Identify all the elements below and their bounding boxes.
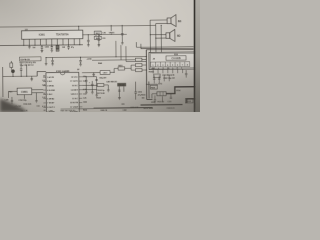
node dot feed tap x=80.5 <box>80 57 81 58</box>
ground at C602 <box>41 50 44 52</box>
wire: horizontal feed y=60 <box>92 59 135 61</box>
wire: U601 output net to right cluster <box>82 33 126 35</box>
wire: C817 right lead <box>110 71 114 73</box>
capacitor C814 dashes on x=96.3 <box>95 79 97 80</box>
wire: CN601 to U201 pin b <box>32 92 44 94</box>
wire: vertical speaker feed 1 <box>149 20 151 52</box>
capacitor C518 stub <box>154 95 156 103</box>
capacitor C817 box <box>100 71 110 75</box>
capacitor C603 below rail <box>51 45 53 50</box>
capacitor C602 below rail <box>41 45 43 50</box>
capacitor C611 on node at x=88.5 <box>87 35 90 45</box>
wire: riser x=116 to feed y=57 <box>115 41 117 57</box>
relay TC-08B label box <box>117 83 126 86</box>
wire: left edge vertical <box>2 67 4 97</box>
capacitor C511 stub <box>170 94 172 99</box>
node dot junction R601 right <box>98 34 99 35</box>
wire: CN601 bottom stub <box>23 95 25 99</box>
capacitor C613 drop from bus <box>121 25 124 42</box>
input stage label block frame <box>20 57 42 61</box>
U201 pin voltage labels (left, outside) <box>42 76 47 112</box>
node dot pin stub x=86 <box>86 76 87 77</box>
wire: lower link y=108.3 <box>61 108 94 110</box>
wire: bus tap to U601 top <box>78 26 80 30</box>
node dot link x=114 <box>114 72 115 73</box>
resistor R601 in series on output net <box>94 31 101 35</box>
node dot at x=26.5 on net <box>26 76 27 77</box>
resistor R509 box at right edge <box>196 93 200 98</box>
wire: stubs from CX pins down <box>154 75 169 83</box>
wire: bottom thick bus <box>141 104 183 106</box>
wire: links between R601 and R602 <box>96 35 99 37</box>
ground rail under U601 <box>0 44 83 47</box>
electrolytic C604 dark body <box>56 46 59 49</box>
wire: CN601 to U201 pin a <box>32 89 44 91</box>
node dot rail y=84.7 <box>146 84 147 85</box>
U201 top notch <box>60 73 64 75</box>
node dot riser x=116 <box>116 56 117 57</box>
wire: bottom-left horizontal net y=75.5 <box>3 75 37 77</box>
capacitor dashes on stub x=159 <box>158 78 160 79</box>
ground at C613 <box>121 43 124 45</box>
wire: vertical link x=114 <box>113 68 115 72</box>
wire: SP602 minus lead <box>156 37 166 39</box>
R655 lead wires <box>131 69 146 71</box>
area beyond sheet edge <box>195 0 200 112</box>
ground at C603 <box>51 50 54 52</box>
wire: vertical x=96.3 <box>82 77 97 96</box>
wire: bottom bus left segment <box>94 107 153 110</box>
capacitor C612 on node at x=99 <box>98 35 101 45</box>
ground at C611 <box>87 45 90 47</box>
ground at x=31.5 under net <box>30 79 33 81</box>
capacitor C220 left column <box>11 97 13 104</box>
wire: vertical under CN wires <box>35 93 37 101</box>
capacitor C812 right of U201 <box>85 77 88 92</box>
wire: horizontal feed y=57 <box>46 57 146 58</box>
R653 lead wires on y=60 net <box>142 59 146 61</box>
capacitor C501 drop at x=52.5 <box>51 57 53 63</box>
resistor R654 middle box <box>135 64 142 67</box>
ground at x=46 <box>45 64 48 66</box>
CX-100B name plate <box>166 56 186 61</box>
wire: step up to U201 pin row <box>37 71 46 76</box>
node dot bus tap feed 3 <box>161 25 162 26</box>
wire: long vertical rail x=146 / enclosure left edge <box>146 50 152 100</box>
node dot rail tap y=70.5 <box>146 69 147 70</box>
ground at cluster <box>118 98 121 100</box>
U201 right pin name column <box>69 77 79 113</box>
wire: vertical feed 3 from bus <box>160 25 162 52</box>
speaker SP601 <box>167 18 171 24</box>
wire: U201 pin row y=89.5 link <box>82 89 96 91</box>
capacitor C515 dashes <box>118 90 120 91</box>
capacitor C504 stub right <box>185 70 187 78</box>
ground at C501 <box>51 64 54 66</box>
wire: upper feed pair line 2 <box>141 43 194 49</box>
resistor R655 lower box <box>135 69 142 72</box>
node dot bus tap x=79 <box>78 26 79 27</box>
connector CX-100B outer box <box>149 52 197 70</box>
capacitor C606 below rail <box>67 45 69 50</box>
node dots on ground rail <box>23 44 80 46</box>
ground at C612 <box>98 45 101 47</box>
connector CN601 box <box>17 88 32 95</box>
node dot feed tap x=46 <box>45 57 46 58</box>
CX-100B cell caption row <box>152 67 184 69</box>
wire VR601 to output net <box>110 33 112 36</box>
CX-100B inner border <box>150 53 196 68</box>
wire: SP602 plus lead <box>150 34 166 36</box>
CX-100B pin strip cells <box>151 62 190 67</box>
capacitor C813 <box>91 81 94 92</box>
wire: SP601 minus lead <box>156 22 167 24</box>
vignette overlays <box>0 0 200 112</box>
R651 lead wires <box>114 67 131 69</box>
U601 pin stubs (pins 1-11) <box>24 39 80 46</box>
node dot x=96.3 y=85.2 <box>96 85 97 86</box>
wire: U201 pin row y=85.2 to rail <box>82 84 96 86</box>
resistor R602 stacked box <box>94 36 101 39</box>
enclosure top edge <box>146 48 193 50</box>
U201 right pin stubs <box>79 77 83 107</box>
ground at x=96.3 bottom <box>95 95 98 97</box>
capacitor dashes on stub x=154 <box>153 78 155 79</box>
ground symbol at x=29.5 <box>28 45 31 48</box>
Q201 lead <box>11 67 13 76</box>
wire: top horizontal bus net <box>0 25 156 27</box>
trimmer VR601 drop from bus <box>110 26 112 31</box>
wire: vertical link x=131 <box>130 65 132 70</box>
wire: upper feed pair line 1 <box>136 42 193 48</box>
R654 lead wires <box>131 64 146 66</box>
wire: vertical x=196 upper <box>196 70 198 93</box>
connector edge box bottom right <box>195 104 201 109</box>
U201 left pin stubs <box>43 77 46 107</box>
sheet edge dark line <box>194 0 196 112</box>
U201 left pin name column <box>47 76 56 113</box>
CX-100B pin stub wires below <box>153 69 182 73</box>
wire: rail shadow double line <box>148 81 150 98</box>
wire: horizontal feed y=61.8 <box>126 46 146 62</box>
wire: riser x=121 to feed y=60 <box>120 45 122 60</box>
node dot SP2 tap on feed 2 <box>155 38 156 39</box>
node dot junction R601 left <box>88 34 89 35</box>
wire: R512 left lead <box>152 94 157 99</box>
wire: vertical x=26.5 <box>26 65 28 76</box>
wire: U201 out to C817 <box>82 71 100 73</box>
node dot lower run <box>186 98 187 99</box>
node dot rail top <box>146 56 147 57</box>
ground at C812 <box>85 92 88 94</box>
ground under x=36 <box>35 101 38 103</box>
speaker SP602 <box>166 33 170 39</box>
wire: vertical speaker feed 2 <box>155 24 157 53</box>
capacitor C815 from feed <box>79 57 81 64</box>
wire: thick stepped output run upper <box>166 87 200 94</box>
ground at C813 <box>91 92 94 94</box>
resistor R202 vertical <box>10 61 12 63</box>
capacitor C516 on rail x=135 <box>134 82 137 100</box>
transistor Q201 body <box>11 70 14 73</box>
resistor R516 small box <box>97 83 104 86</box>
node dot thick step <box>174 93 175 94</box>
small box under CX pins <box>154 74 161 78</box>
inductor L501 box <box>185 98 193 103</box>
IC U601 power amp (top DIP box) <box>22 30 83 39</box>
resistor R508 box <box>150 85 157 89</box>
node dot SP2 tap on feed 1 <box>150 34 151 35</box>
node dot at x=11 on net <box>13 76 14 77</box>
resistor R651 <box>118 67 125 70</box>
node dot at bus x=111.5 <box>111 25 112 26</box>
node dot at x=21 on net <box>21 76 22 77</box>
resistor R653 top box <box>135 58 142 61</box>
wire: thick lower run <box>187 99 201 103</box>
U201 pin voltage labels (right, outside) <box>83 76 87 95</box>
IC U201 main amplifier (bottom DIP box) <box>46 72 79 113</box>
corner shadow bottom-left <box>0 99 27 113</box>
wire: SP601 plus lead <box>150 19 167 21</box>
wire: stub x=162 <box>161 96 163 102</box>
wire: stub x=46 from feed <box>45 58 47 64</box>
wire: rail to R508 link <box>147 84 158 85</box>
resistor R512 segmented box <box>157 92 166 96</box>
node dot at bus x=122.5 <box>122 25 123 26</box>
TC-08B leads <box>119 86 124 97</box>
ground at C815 <box>79 64 82 66</box>
ground at R516 <box>107 90 110 92</box>
wire: CN601 left lead <box>9 91 18 98</box>
ground tap at x=93.5 <box>92 73 95 77</box>
capacitor C205 vertical <box>20 63 23 76</box>
